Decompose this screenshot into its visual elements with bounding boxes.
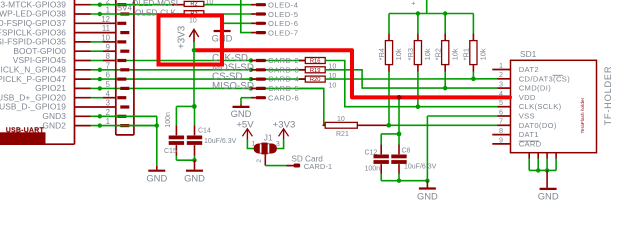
- svg-text:R16: R16: [310, 59, 321, 65]
- svg-text:10k: 10k: [423, 48, 432, 60]
- svg-text:CARD-6: CARD-6: [268, 93, 299, 102]
- svg-text:VSS: VSS: [519, 112, 535, 121]
- svg-text:CLK(SCLK): CLK(SCLK): [519, 102, 562, 111]
- svg-text:*R4: *R4: [377, 48, 386, 60]
- svg-text:CARD-1: CARD-1: [304, 162, 332, 171]
- svg-text:C15: C15: [164, 148, 177, 155]
- svg-text:10k: 10k: [394, 48, 403, 60]
- svg-text:100n: 100n: [365, 166, 381, 173]
- svg-text:10k: 10k: [450, 48, 459, 60]
- svg-text:10uF/6.3V: 10uF/6.3V: [204, 138, 237, 145]
- svg-text:R21: R21: [336, 131, 349, 138]
- svg-text:10: 10: [206, 0, 214, 6]
- svg-text:GND: GND: [417, 190, 438, 201]
- svg-text:C14: C14: [198, 127, 211, 134]
- svg-text:+3V3: +3V3: [176, 25, 187, 49]
- svg-text:CARD-3: CARD-3: [268, 65, 299, 74]
- svg-text:OLED-4: OLED-4: [268, 1, 298, 10]
- svg-text:10uF/6.3V: 10uF/6.3V: [404, 164, 437, 171]
- svg-text:*R2: *R2: [433, 48, 442, 60]
- svg-text:CARD-2: CARD-2: [268, 56, 299, 65]
- svg-text:TeraFlash holder: TeraFlash holder: [580, 97, 586, 133]
- svg-text:C8: C8: [402, 148, 411, 155]
- svg-text:GND: GND: [538, 191, 559, 202]
- svg-text:C12: C12: [365, 150, 378, 157]
- svg-text:DAT0(DO): DAT0(DO): [519, 121, 557, 130]
- svg-text:R20: R20: [310, 77, 321, 83]
- svg-text:DAT2: DAT2: [519, 65, 539, 74]
- svg-text:OLED-7: OLED-7: [268, 28, 298, 37]
- svg-text:GND: GND: [146, 173, 167, 184]
- svg-text:CMD(DI): CMD(DI): [519, 84, 552, 93]
- svg-text:3: 3: [499, 80, 503, 89]
- svg-text:CARD-5: CARD-5: [268, 84, 299, 93]
- svg-text:*R1: *R1: [462, 48, 471, 60]
- svg-text:SD1: SD1: [520, 49, 537, 59]
- svg-text:2: 2: [256, 159, 263, 163]
- svg-text:100n: 100n: [165, 112, 172, 128]
- svg-text:2: 2: [499, 70, 503, 79]
- svg-text:10: 10: [189, 18, 197, 25]
- svg-text:*R3: *R3: [406, 48, 415, 60]
- svg-text:1: 1: [499, 61, 503, 70]
- svg-text:GND2: GND2: [42, 120, 66, 130]
- svg-text:8: 8: [499, 126, 503, 135]
- svg-text:9: 9: [499, 135, 503, 144]
- svg-text:VDD: VDD: [519, 93, 536, 102]
- svg-text:10k: 10k: [479, 48, 488, 60]
- svg-text:7: 7: [499, 117, 503, 126]
- svg-text:R2: R2: [190, 2, 197, 8]
- svg-text:DAT1: DAT1: [519, 130, 539, 139]
- svg-text:GND: GND: [231, 108, 252, 119]
- svg-text:10: 10: [329, 82, 337, 89]
- svg-text:J1: J1: [264, 132, 273, 142]
- svg-text:OLED-5: OLED-5: [268, 10, 298, 19]
- svg-text:10: 10: [337, 116, 345, 123]
- svg-text:6: 6: [499, 107, 503, 116]
- svg-text:OLED-6: OLED-6: [268, 19, 298, 28]
- svg-text:+5V: +5V: [236, 119, 254, 130]
- svg-text:GND: GND: [184, 173, 205, 184]
- svg-text:OLED-MOSI: OLED-MOSI: [132, 0, 178, 8]
- svg-text:R19: R19: [310, 68, 321, 74]
- svg-text:CARD-4: CARD-4: [268, 75, 299, 84]
- svg-text:5: 5: [499, 98, 503, 107]
- svg-text:TF-HOLDER: TF-HOLDER: [603, 66, 613, 126]
- svg-text:MISO-SD: MISO-SD: [212, 81, 254, 92]
- svg-text:USB-UART: USB-UART: [6, 128, 45, 135]
- svg-text:+: +: [411, 0, 415, 7]
